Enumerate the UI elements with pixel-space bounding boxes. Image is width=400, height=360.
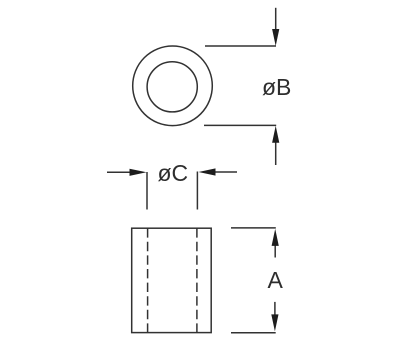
dimension A bottom arrowhead (down) (271, 314, 278, 331)
dimension øB bottom extension line (204, 124, 276, 126)
spacer top view inner hole circle (147, 62, 197, 112)
dimension øC left arrowhead (right) (130, 169, 147, 176)
dimension A bottom arrow shaft (274, 302, 276, 315)
svg-text:øB: øB (262, 74, 291, 100)
hidden hole line right (dashed) (196, 228, 198, 332)
hidden hole line left (dashed) (147, 228, 149, 332)
dimension A top arrow shaft (274, 246, 276, 258)
dimension A bottom extension line (231, 332, 276, 334)
spacer front view rectangle (132, 228, 212, 332)
dimension øC left extension line (146, 172, 148, 210)
dimension øC right arrow shaft (215, 171, 237, 173)
spacer top view outer circle (133, 46, 213, 126)
dimension øC left arrow shaft (107, 171, 130, 173)
dimension øC right extension line (196, 172, 198, 210)
svg-text:A: A (268, 267, 284, 293)
dimension øB bottom arrowhead (up) (272, 126, 279, 143)
dimension øC right arrowhead (left) (199, 168, 216, 175)
dimension øB bottom arrow shaft (275, 143, 277, 166)
dimension øB top extension line (205, 45, 276, 47)
dimension øB top arrow shaft (275, 8, 277, 30)
dimension A top extension line (231, 227, 276, 229)
dimension A top arrowhead (up) (272, 229, 279, 246)
dimension øB top arrowhead (down) (272, 29, 279, 46)
svg-text:øC: øC (158, 160, 189, 186)
